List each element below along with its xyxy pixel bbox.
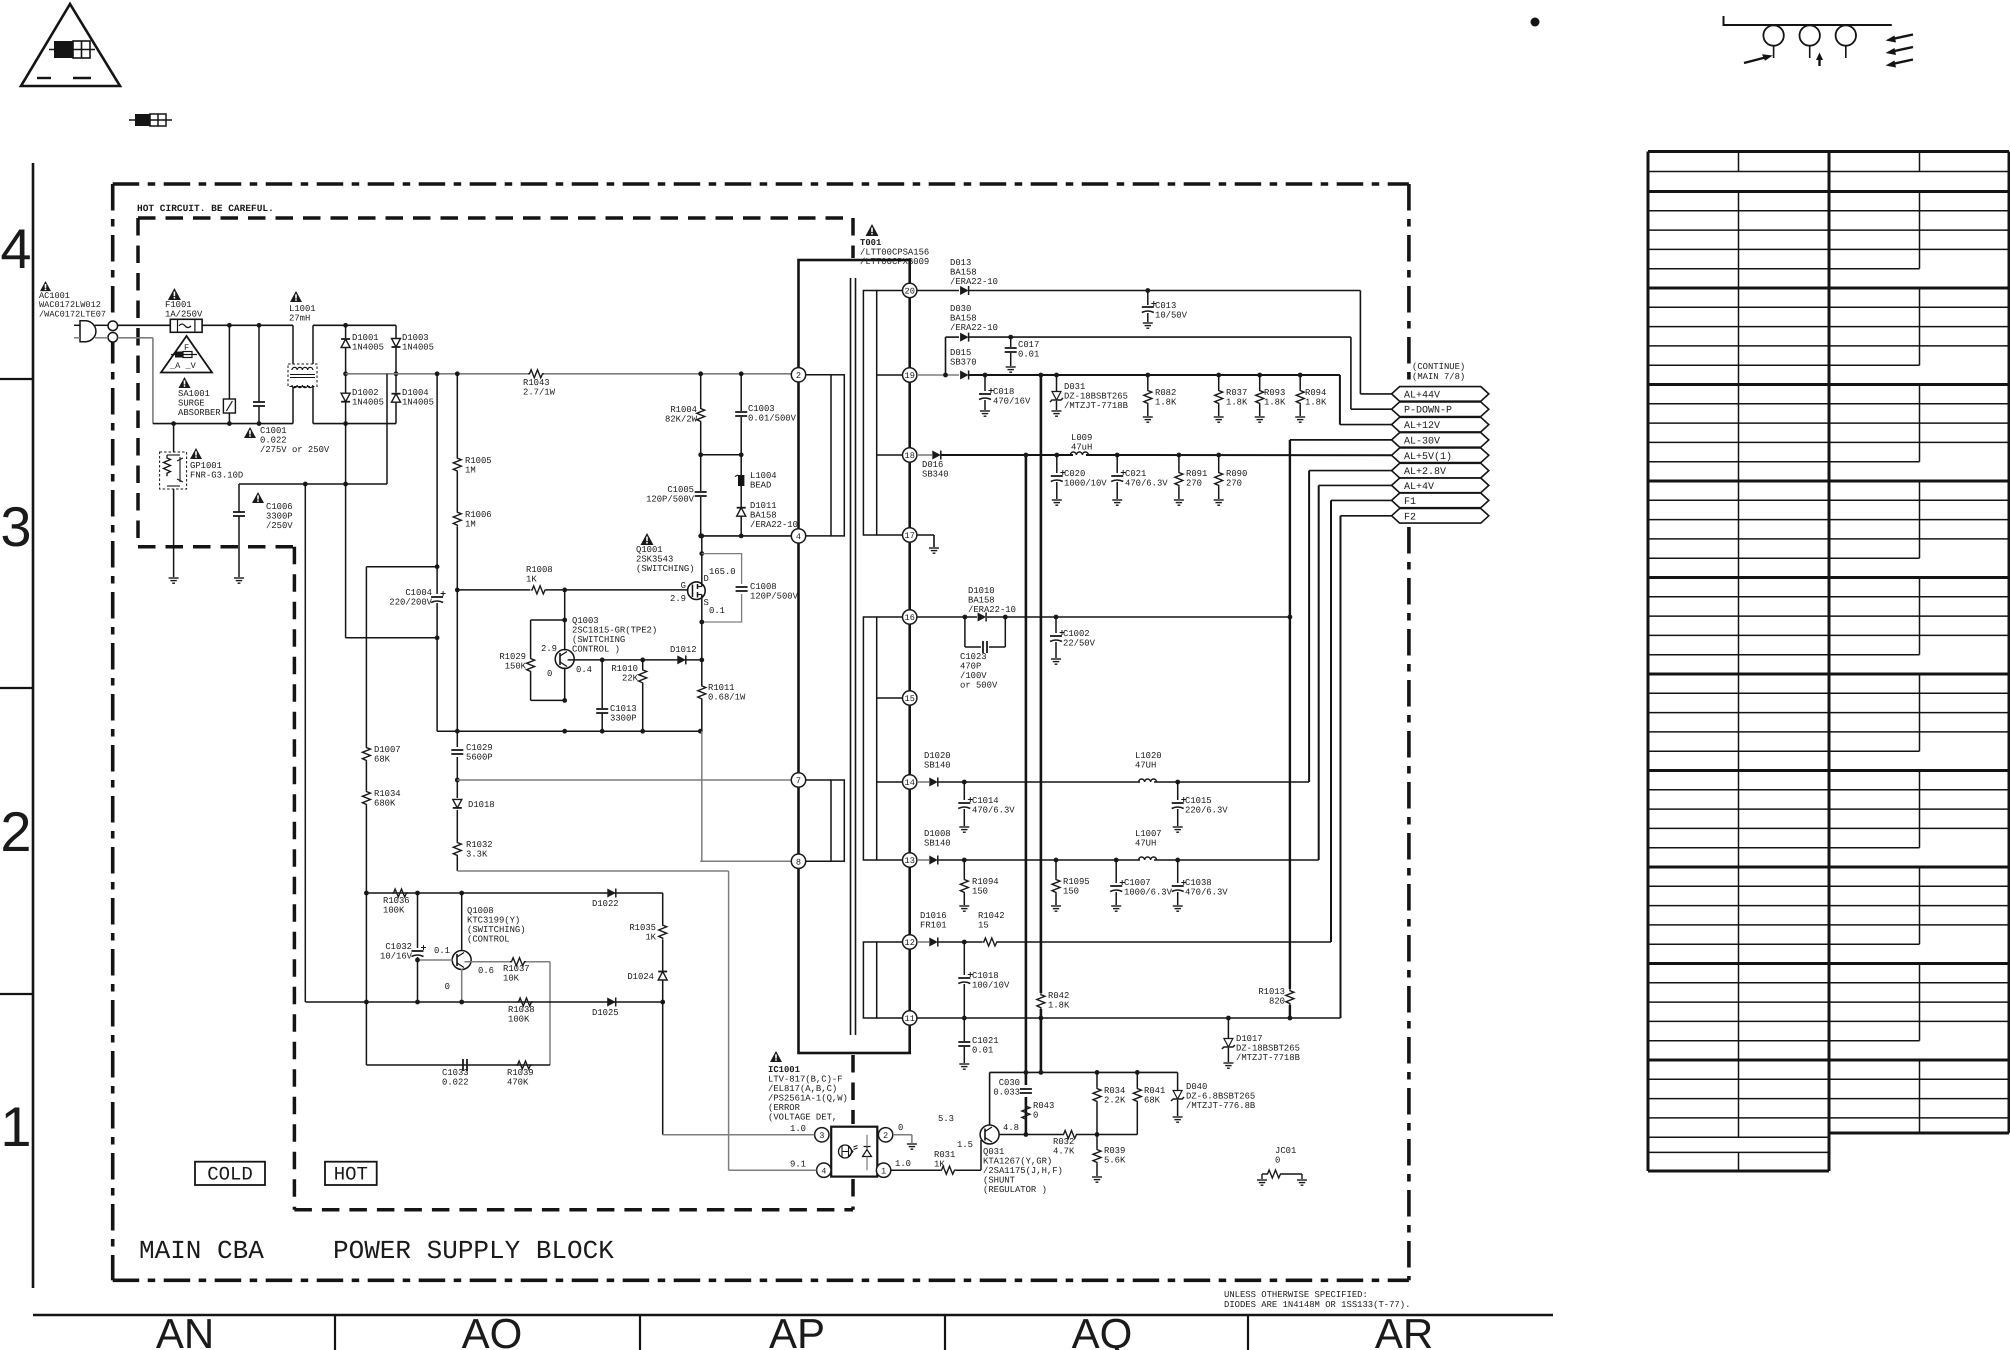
svg-text:820: 820: [1269, 997, 1285, 1007]
wire C1004 bottom down: [436, 638, 438, 731]
node r1038-C1032: [415, 1000, 420, 1005]
svg-text:47UH: 47UH: [1135, 839, 1156, 849]
svg-text:3300P: 3300P: [610, 714, 637, 724]
svg-text:R031: R031: [934, 1150, 955, 1160]
svg-text:/PS2561A-1(Q,W): /PS2561A-1(Q,W): [768, 1094, 848, 1104]
svg-text:4: 4: [821, 1166, 826, 1176]
svg-text:1M: 1M: [465, 520, 476, 530]
node pin7 wire: [455, 778, 460, 783]
svg-text:R1042: R1042: [978, 911, 1005, 921]
ground C021: [1112, 499, 1122, 501]
resistor R094: [1299, 375, 1301, 389]
svg-text:0: 0: [898, 1123, 903, 1133]
warning triangle C1001: [244, 427, 256, 438]
node C1005 top: [698, 534, 703, 539]
transformer core: [850, 278, 852, 1035]
node C1007: [1114, 858, 1119, 863]
svg-text:(ERROR: (ERROR: [768, 1103, 801, 1113]
node rail-D1001: [343, 323, 348, 328]
svg-text:MAIN CBA: MAIN CBA: [139, 1236, 264, 1266]
svg-text:12: 12: [905, 938, 915, 948]
node B+ R1005: [455, 371, 460, 376]
svg-text:SB140: SB140: [924, 761, 951, 771]
node source-D1012: [699, 658, 704, 663]
warning triangle IC1001: [770, 1051, 782, 1062]
svg-text:22/50V: 22/50V: [1063, 639, 1096, 649]
resistor R093: [1259, 375, 1261, 389]
wire C1029 chain: [456, 590, 458, 747]
svg-text:1K: 1K: [934, 1160, 945, 1170]
svg-text:R1006: R1006: [465, 510, 492, 520]
resistor R1013: [1286, 989, 1294, 1005]
svg-text:R1032: R1032: [466, 840, 493, 850]
svg-text:/ERA22-10: /ERA22-10: [950, 277, 998, 287]
diode D1012: [677, 655, 686, 664]
svg-text:R1038: R1038: [508, 1005, 535, 1015]
svg-text:1.0: 1.0: [790, 1124, 806, 1134]
wire neutral to C1004: [345, 484, 347, 638]
svg-text:P-DOWN-P: P-DOWN-P: [1404, 406, 1452, 417]
svg-text:0: 0: [1275, 1156, 1280, 1166]
svg-text:/MTZJT-776.8B: /MTZJT-776.8B: [1186, 1101, 1255, 1111]
svg-text:(MAIN 7/8): (MAIN 7/8): [1412, 372, 1465, 382]
svg-text:1A/250V: 1A/250V: [165, 310, 203, 320]
warning triangle F1001: [168, 288, 181, 300]
svg-text:3300P: 3300P: [266, 512, 293, 522]
wire R1035 chain: [662, 893, 664, 924]
pin 19: [903, 368, 917, 382]
svg-text:22K: 22K: [622, 674, 639, 684]
svg-text:/ERA22-10: /ERA22-10: [968, 605, 1016, 615]
wire Q1008 base: [418, 959, 453, 961]
ground JC01 right: [1297, 1179, 1307, 1181]
svg-text:100/10V: 100/10V: [972, 981, 1010, 991]
caution triangle icon: [21, 4, 120, 86]
wire pin16: [917, 616, 977, 618]
ground JC01 left: [1257, 1179, 1267, 1181]
wire plug to terminals: [95, 324, 108, 326]
ground GP1001: [169, 577, 179, 579]
wire opto pin1: [891, 1169, 940, 1171]
svg-text:D016: D016: [922, 460, 943, 470]
svg-text:1M: 1M: [465, 466, 476, 476]
node join left: [698, 452, 703, 457]
optocoupler photodiode: [863, 1147, 872, 1157]
resistor R090: [1218, 455, 1220, 471]
svg-text:or 500V: or 500V: [960, 681, 998, 691]
node btm R1010: [640, 729, 645, 734]
svg-text:L009: L009: [1071, 433, 1092, 443]
svg-text:Q1008: Q1008: [467, 906, 494, 916]
ground R091: [1174, 499, 1184, 501]
outer dash-dot border right upper: [1407, 184, 1411, 382]
node R090: [1216, 453, 1221, 458]
svg-text:C030: C030: [999, 1078, 1020, 1088]
wire B+ to C1004: [436, 374, 438, 567]
bus R042 line: [1040, 375, 1043, 993]
svg-text:2.9: 2.9: [541, 644, 557, 654]
wire pin19: [917, 374, 959, 376]
svg-text:D015: D015: [950, 348, 971, 358]
svg-text:F2: F2: [1404, 512, 1416, 523]
diode D1022: [607, 889, 616, 898]
antenna circle 2: [1800, 25, 1820, 45]
wire Q1003 rail drop: [457, 870, 728, 872]
capacitor C1013: [601, 660, 603, 708]
opto pin 4: [817, 1163, 831, 1177]
capacitor C1018: [963, 942, 965, 975]
svg-text:2.9: 2.9: [670, 594, 686, 604]
wire pin7: [457, 779, 791, 781]
svg-text:AL-30V: AL-30V: [1404, 436, 1440, 447]
svg-text:AL+12V: AL+12V: [1404, 421, 1440, 432]
svg-text:C1029: C1029: [466, 743, 493, 753]
bullet dot: [1531, 18, 1540, 27]
node pin4-drain: [699, 534, 704, 539]
svg-text:0: 0: [547, 669, 552, 679]
svg-text:D030: D030: [950, 304, 971, 314]
outer dash-dot border right lower: [1407, 527, 1411, 1280]
node R1094: [962, 858, 967, 863]
svg-text:R1043: R1043: [523, 378, 550, 388]
wire neutral drop: [345, 424, 347, 484]
capacitor C013: [1147, 291, 1149, 306]
node R037: [1216, 373, 1221, 378]
flag AL+5V(1): [1392, 448, 1489, 463]
svg-text:(CONTINUE): (CONTINUE): [1412, 362, 1465, 372]
COLD box: [195, 1162, 265, 1185]
ruler tick AN/AO: [334, 1315, 336, 1350]
svg-text:BA158: BA158: [750, 511, 777, 521]
node coll-C030bus: [1024, 1132, 1029, 1137]
svg-text:120P/500V: 120P/500V: [750, 592, 799, 602]
svg-text:R1010: R1010: [611, 664, 638, 674]
svg-text:220/200V: 220/200V: [389, 598, 432, 608]
pin 12: [903, 935, 917, 949]
pin 2: [791, 368, 805, 382]
ground D1017: [1223, 1062, 1233, 1064]
zener D1017: [1227, 1018, 1229, 1038]
wire Q1003 bottom rail: [437, 730, 700, 732]
svg-text:FNR-G3.10D: FNR-G3.10D: [190, 471, 243, 481]
svg-text:15: 15: [905, 694, 915, 704]
HOT box: [325, 1162, 377, 1185]
svg-text:120P/500V: 120P/500V: [646, 495, 695, 505]
svg-text:/LTT00CPXB009: /LTT00CPXB009: [860, 257, 929, 267]
node C1014: [962, 780, 967, 785]
resistor R091: [1178, 455, 1180, 471]
svg-text:/100V: /100V: [960, 671, 987, 681]
svg-text:(SHUNT: (SHUNT: [983, 1176, 1015, 1186]
svg-text:18: 18: [905, 451, 915, 461]
svg-text:BEAD: BEAD: [750, 481, 771, 491]
svg-text:SA1001: SA1001: [178, 389, 210, 399]
ruler tick AP/AQ: [944, 1315, 946, 1350]
svg-text:T001: T001: [860, 238, 881, 248]
pin 17: [903, 528, 917, 542]
ground C1021: [959, 1063, 969, 1065]
wire B+ rail: [346, 373, 528, 375]
svg-text:3: 3: [0, 495, 31, 558]
wire D030 branch: [945, 337, 947, 375]
node pin11-R1013: [1288, 1016, 1293, 1021]
wire choke bottom left: [292, 387, 294, 424]
ground R094: [1295, 416, 1305, 418]
svg-text:470/6.3V: 470/6.3V: [972, 806, 1015, 816]
inductor L1020: [1139, 779, 1157, 782]
node join right: [739, 452, 744, 457]
wire R1005 chain: [456, 374, 458, 457]
node C021: [1115, 453, 1120, 458]
hot border left lower: [293, 547, 297, 1210]
line filter L1001: [288, 364, 317, 387]
svg-text:470/16V: 470/16V: [993, 397, 1031, 407]
wire C1033 rail: [366, 1064, 550, 1066]
node rail-x366: [364, 891, 369, 896]
svg-text:F1001: F1001: [165, 300, 192, 310]
svg-text:D040: D040: [1186, 1082, 1207, 1092]
svg-text:D1017: D1017: [1236, 1034, 1263, 1044]
svg-text:100K: 100K: [383, 906, 405, 916]
svg-text:9.1: 9.1: [790, 1160, 806, 1170]
optocoupler LED: [839, 1145, 852, 1158]
resistor D1007: [362, 746, 370, 762]
svg-text:D1024: D1024: [627, 972, 654, 982]
svg-text:1000/10V: 1000/10V: [1064, 479, 1107, 489]
diode D1020: [929, 778, 938, 787]
svg-text:C1007: C1007: [1124, 878, 1151, 888]
node R093: [1257, 373, 1262, 378]
svg-text:0: 0: [445, 982, 450, 992]
svg-text:HOT: HOT: [334, 1164, 368, 1186]
node C020: [1054, 453, 1059, 458]
svg-text:CONTROL ): CONTROL ): [572, 645, 620, 655]
warning triangle GP1001: [190, 448, 202, 459]
node gate-Q1003: [562, 588, 567, 593]
fuse F1001: [170, 319, 202, 332]
svg-text:3: 3: [819, 1131, 824, 1141]
pin 11: [903, 1011, 917, 1025]
resistor R1037: [510, 958, 526, 966]
resistor R1011: [698, 684, 706, 700]
ground pin17: [929, 547, 939, 549]
svg-text:COLD: COLD: [207, 1164, 253, 1186]
warning triangle SA1001: [179, 377, 191, 388]
node r1038-Q1008: [459, 1000, 464, 1005]
svg-text:0.01: 0.01: [1018, 350, 1039, 360]
svg-text:0.022: 0.022: [442, 1078, 469, 1088]
resistor R1004: [700, 374, 702, 407]
svg-text:Q1003: Q1003: [572, 616, 599, 626]
svg-text:R1037: R1037: [503, 964, 530, 974]
surge absorber SA1001: [228, 325, 230, 399]
svg-text:C1013: C1013: [610, 704, 637, 714]
svg-text:1N4005: 1N4005: [352, 343, 384, 353]
diode D1010: [978, 613, 987, 622]
bus C030 line: [1025, 455, 1028, 1085]
node D1025 right: [660, 1000, 665, 1005]
secondary winding 20-17: [863, 291, 876, 536]
capacitor C021: [1116, 455, 1118, 473]
node bus1040 top: [1039, 373, 1044, 378]
svg-text:KTC3199(Y): KTC3199(Y): [467, 916, 520, 926]
svg-text:2: 2: [0, 800, 31, 863]
svg-text:0.68/1W: 0.68/1W: [708, 693, 746, 703]
node pin11-R042bus: [1039, 1016, 1044, 1021]
svg-text:C1008: C1008: [750, 582, 777, 592]
inductor L1007: [1139, 857, 1157, 860]
primary winding 7-8: [799, 779, 832, 781]
svg-text:(VOLTAGE DET,: (VOLTAGE DET,: [768, 1113, 837, 1123]
svg-text:D031: D031: [1064, 382, 1085, 392]
svg-text:150K: 150K: [505, 662, 527, 672]
capacitor C1005: [700, 455, 702, 491]
zener D040: [1177, 1072, 1179, 1090]
node R082: [1145, 373, 1150, 378]
svg-text:47UH: 47UH: [1135, 761, 1156, 771]
svg-text:R1035: R1035: [629, 923, 656, 933]
node pin11-D1017: [1226, 1016, 1231, 1021]
varistor GP1001: [160, 452, 187, 489]
svg-text:R1005: R1005: [465, 456, 492, 466]
wire fuse rail to choke: [292, 325, 294, 364]
svg-text:AL+4V: AL+4V: [1404, 482, 1434, 493]
ground C017: [1006, 366, 1016, 368]
svg-text:1.8K: 1.8K: [1305, 398, 1327, 408]
outer dash-dot border bottom: [113, 1279, 1409, 1283]
capacitor C1029: [451, 749, 463, 751]
node fuse-SA: [227, 323, 232, 328]
svg-text:68K: 68K: [1144, 1096, 1161, 1106]
svg-text:2SK3543: 2SK3543: [636, 555, 673, 565]
svg-text:R1013: R1013: [1258, 987, 1285, 997]
svg-text:14: 14: [905, 778, 915, 788]
wire Q031 emitter: [989, 1072, 991, 1125]
revision table (empty grid): [1648, 150, 2009, 153]
svg-text:16: 16: [905, 613, 915, 623]
svg-text:AR: AR: [1375, 1310, 1433, 1350]
svg-text:17: 17: [905, 531, 915, 541]
svg-text:220/6.3V: 220/6.3V: [1185, 806, 1228, 816]
svg-text:DZ-6.8BSBT265: DZ-6.8BSBT265: [1186, 1092, 1255, 1102]
wire pin20: [917, 290, 959, 292]
pin 16: [903, 610, 917, 624]
capacitor C030: [1020, 1088, 1032, 1090]
capacitor C1007: [1115, 860, 1117, 883]
svg-text:C1032: C1032: [385, 942, 412, 952]
node btm R1011: [698, 729, 703, 734]
svg-text:C013: C013: [1155, 301, 1176, 311]
svg-text:L1004: L1004: [750, 471, 777, 481]
svg-text:R1034: R1034: [374, 789, 401, 799]
diode D1004: [395, 374, 397, 393]
svg-text:1K: 1K: [526, 575, 537, 585]
svg-text:/WAC0172LTE07: /WAC0172LTE07: [39, 309, 106, 319]
svg-text:D1010: D1010: [968, 586, 995, 596]
secondary winding 16-13: [863, 617, 876, 860]
capacitor C018: [984, 375, 986, 391]
svg-text:L1007: L1007: [1135, 829, 1162, 839]
svg-text:JC01: JC01: [1275, 1146, 1296, 1156]
svg-text:1.8K: 1.8K: [1264, 398, 1286, 408]
svg-text:R091: R091: [1186, 469, 1207, 479]
diode D016: [932, 451, 941, 460]
diode D1016: [929, 938, 938, 947]
svg-text:13: 13: [905, 856, 915, 866]
node Q1003 emitter loop: [562, 698, 567, 703]
svg-text:C018: C018: [993, 387, 1014, 397]
node B+ R1004: [698, 371, 703, 376]
svg-text:C1014: C1014: [972, 796, 999, 806]
wire D1022 rail: [366, 892, 662, 894]
pin 18: [903, 448, 917, 462]
opto pin 3: [815, 1128, 829, 1142]
svg-text:UNLESS OTHERWISE SPECIFIED:: UNLESS OTHERWISE SPECIFIED:: [1224, 1290, 1368, 1300]
wire Q031 collector: [999, 1134, 1062, 1136]
svg-text:D1008: D1008: [924, 829, 951, 839]
svg-text:68K: 68K: [374, 755, 391, 765]
svg-text:R1011: R1011: [708, 683, 735, 693]
ground R090: [1214, 499, 1224, 501]
node C1018: [962, 940, 967, 945]
ground C1002: [1051, 658, 1061, 660]
ruler tick AQ/AR: [1247, 1315, 1249, 1350]
up arrow: [1818, 57, 1820, 66]
resistor R042: [1037, 993, 1045, 1009]
ground R1095: [1051, 905, 1061, 907]
node D031: [1054, 373, 1059, 378]
diode D1025: [607, 998, 616, 1007]
flag AL+2.8V: [1392, 463, 1489, 478]
wire choke top right: [312, 325, 314, 364]
AC terminal node upper: [108, 321, 118, 331]
node C018: [983, 373, 988, 378]
svg-text:0.1: 0.1: [434, 946, 450, 956]
svg-text:SURGE: SURGE: [178, 399, 205, 409]
wire source chain: [701, 660, 703, 685]
svg-text:10/50V: 10/50V: [1155, 311, 1188, 321]
capacitor C017: [1010, 337, 1012, 347]
wire Q1008 emitter right: [465, 961, 511, 963]
svg-text:1.5: 1.5: [957, 1140, 973, 1150]
jumper JC01: [1262, 1173, 1266, 1175]
diode D030: [960, 333, 969, 342]
node R1095: [1054, 858, 1059, 863]
outer dash-dot border top: [113, 182, 1409, 186]
resistor R1094: [963, 860, 965, 878]
svg-text:D1001: D1001: [352, 333, 379, 343]
capacitor C1021: [963, 1018, 965, 1041]
svg-text:BA158: BA158: [950, 268, 977, 278]
resistor R1036: [392, 889, 408, 897]
node bridge left mid: [343, 371, 348, 376]
svg-text:LTV-817(B,C)-F: LTV-817(B,C)-F: [768, 1075, 843, 1085]
capacitor C020: [1056, 455, 1058, 473]
svg-text:DZ-18BSBT265: DZ-18BSBT265: [1064, 392, 1128, 402]
wire D1007 branch: [366, 566, 437, 568]
svg-text:4.7K: 4.7K: [1053, 1147, 1075, 1157]
resistor R043: [1022, 1105, 1030, 1121]
resistor R1008: [531, 586, 547, 594]
node B+ C1003: [739, 371, 744, 376]
svg-text:SB140: SB140: [924, 839, 951, 849]
svg-text:1000/6.3V: 1000/6.3V: [1124, 888, 1173, 898]
svg-text:/2SA1175(J,H,F): /2SA1175(J,H,F): [983, 1166, 1063, 1176]
svg-text:F1: F1: [1404, 497, 1416, 508]
transformer T001 frame: [799, 260, 910, 1053]
svg-text:R043: R043: [1033, 1101, 1054, 1111]
warning triangle AC1001: [40, 281, 51, 291]
